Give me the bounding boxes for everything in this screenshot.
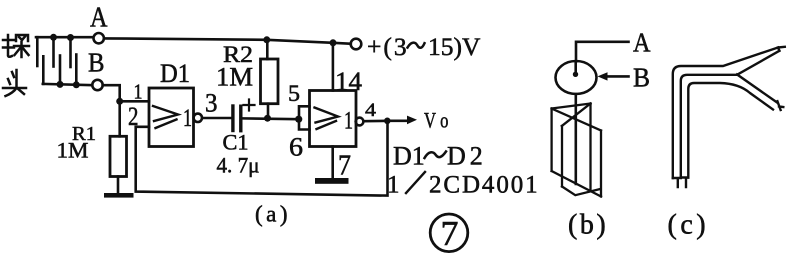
svg-text:V o: V o (424, 108, 449, 133)
resistor R2 body (261, 59, 279, 104)
comb: bottom finger 3 (75, 55, 78, 85)
junction dot on bottom rail (57, 81, 64, 88)
junction dot on bottom rail (73, 81, 80, 88)
(b) B arrowhead (598, 72, 608, 80)
junction dot R2 top (263, 36, 270, 43)
resistor R2 stub top (266, 40, 269, 59)
node B terminal circle (92, 80, 102, 90)
comb: bottom finger 2 (59, 56, 62, 85)
gate2 input bracket (299, 106, 310, 129)
gate D1 output bubble (194, 114, 202, 122)
junction dot on top rail (50, 34, 57, 41)
C1 polarity + (244, 100, 255, 111)
wire: B to input junction (103, 85, 120, 136)
svg-text:2CD4001: 2CD4001 (429, 172, 540, 199)
wire: top supply rail A to +V (104, 38, 351, 43)
probe label 探 (hand-drawn CJK) (3, 35, 29, 57)
comb electrode: bottom rail (43, 84, 92, 85)
junction dot B branch (116, 98, 123, 105)
svg-text:14: 14 (335, 67, 362, 96)
comb: top-left finger (36, 37, 39, 66)
(b) electrode ellipse (556, 61, 597, 94)
svg-text:A: A (90, 3, 108, 34)
svg-text:D1: D1 (393, 142, 425, 171)
comb: top finger 3 (69, 38, 72, 68)
wire: output arrow to Vo (387, 120, 407, 123)
junction dot gate2 input (295, 116, 302, 123)
comb: top finger 2 (52, 37, 55, 66)
gate U2 box (310, 91, 357, 147)
resistor R1 body (110, 136, 127, 176)
capacitor C1 left plate (231, 106, 234, 131)
junction dot pin14 branch (330, 39, 337, 46)
svg-text:7: 7 (338, 151, 351, 182)
note 1/2CD4001 (387, 172, 540, 199)
svg-text:6: 6 (289, 133, 303, 162)
svg-text:4. 7μ: 4. 7μ (217, 153, 260, 178)
(b) B arrow wire (605, 75, 629, 78)
(b) wire to A (576, 42, 629, 62)
wire: gate2 output (364, 120, 388, 123)
junction dot R2 bottom (264, 115, 271, 122)
junction dot output (384, 118, 391, 125)
ground under pin 7 (315, 178, 349, 184)
capacitor C1 right plate (239, 106, 242, 131)
note D1~D2 (393, 142, 487, 171)
svg-text:1: 1 (134, 80, 143, 104)
(b) stem into ellipse (574, 62, 577, 74)
wire: R1 to ground (117, 177, 120, 193)
svg-text:(b): (b) (568, 210, 608, 241)
svg-text:1: 1 (387, 172, 400, 199)
wire: junction to D1 pin1 (120, 100, 149, 103)
output arrowhead (407, 116, 417, 125)
comb electrode: top rail (36, 36, 93, 39)
figure number circled 7 (430, 214, 468, 252)
svg-text:1: 1 (344, 108, 353, 135)
pin 7 wire (331, 147, 334, 179)
gate U2 output bubble (356, 118, 364, 126)
wire: C1 to gate2 input (243, 117, 298, 120)
svg-text:D1: D1 (160, 59, 190, 88)
feedback wire: output down and left to pin2 (136, 121, 388, 196)
svg-text:(a): (a) (255, 202, 291, 227)
svg-text:5: 5 (288, 81, 300, 106)
svg-text:1M: 1M (216, 63, 253, 92)
ground under R1 (104, 193, 134, 198)
svg-text:1: 1 (183, 105, 192, 132)
svg-text:3: 3 (205, 89, 218, 118)
svg-text:15)V: 15)V (428, 32, 481, 61)
junction dot on top rail (67, 34, 74, 41)
svg-text:C1: C1 (223, 130, 249, 155)
(b) center dot (573, 72, 578, 77)
(c) fork probe tubes (673, 47, 785, 187)
pin 14 wire (332, 43, 335, 91)
svg-text:4: 4 (365, 100, 377, 121)
svg-text:1M: 1M (57, 138, 89, 163)
(b) stem below ellipse (574, 94, 577, 184)
node A terminal circle (94, 33, 104, 43)
wire: D1 output to C1 (202, 117, 231, 120)
svg-text:A: A (633, 28, 651, 58)
comb: bottom finger 1 (42, 56, 45, 84)
svg-text:D2: D2 (447, 142, 487, 171)
+V terminal circle (351, 39, 362, 50)
svg-text:B: B (88, 48, 105, 78)
svg-text:B: B (633, 63, 650, 93)
gate D1 box (149, 88, 194, 147)
svg-text:+(3: +(3 (367, 32, 409, 61)
resistor R2 stub bottom (267, 104, 270, 119)
probe label 头 (hand-drawn CJK) (3, 70, 26, 96)
gate D1 symbol >=1 (153, 106, 178, 128)
(b) crossed plates (552, 104, 601, 197)
gate U2 symbol >=1 (315, 108, 339, 130)
supply label +(3~15)V (367, 32, 481, 61)
svg-text:7: 7 (441, 214, 459, 253)
svg-text:(c): (c) (668, 210, 710, 241)
